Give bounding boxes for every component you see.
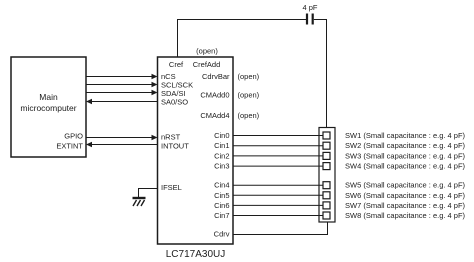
wire IFSEL to ground (139, 189, 158, 198)
wire Cin5 (233, 194, 323, 196)
wire Cin7 (233, 215, 323, 217)
svg-text:SW2 (Small capacitance : e.g.: SW2 (Small capacitance : e.g. 4 pF) (345, 141, 466, 150)
svg-text:(open): (open) (238, 91, 260, 100)
switch SW3 pad (323, 152, 330, 159)
svg-text:Cin7: Cin7 (214, 211, 229, 220)
switch SW7 pad (323, 202, 330, 209)
svg-text:CrefAdd: CrefAdd (193, 60, 221, 69)
svg-text:Cin2: Cin2 (214, 151, 229, 160)
svg-text:SW8 (Small capacitance : e.g.: SW8 (Small capacitance : e.g. 4 pF) (345, 211, 466, 220)
svg-text:SW3 (Small capacitance : e.g.: SW3 (Small capacitance : e.g. 4 pF) (345, 151, 466, 160)
wire capacitor to switch block top (314, 20, 327, 128)
svg-text:Cin1: Cin1 (214, 141, 229, 150)
svg-text:Main: Main (39, 92, 58, 102)
wire Cdrv to switch block bottom (233, 222, 328, 235)
wire INTOUT (91, 144, 158, 146)
svg-text:Cref: Cref (169, 60, 184, 69)
switch SW1 pad (323, 132, 330, 139)
wire Cin1 (233, 145, 323, 147)
capacitor C1 (307, 14, 313, 25)
svg-text:Cin4: Cin4 (214, 181, 229, 190)
switch module outline (319, 128, 335, 223)
wire SCL/SCK (86, 84, 153, 86)
wire Cin2 (233, 155, 323, 157)
svg-text:Cin6: Cin6 (214, 201, 229, 210)
svg-text:CMAdd4: CMAdd4 (200, 111, 229, 120)
svg-text:nRST: nRST (161, 133, 181, 142)
op-amp U1 LC717A30UJ body (158, 57, 234, 244)
svg-text:SW6 (Small capacitance : e.g.: SW6 (Small capacitance : e.g. 4 pF) (345, 191, 466, 200)
main microcomputer box (11, 57, 86, 157)
wire Cin6 (233, 204, 323, 206)
svg-text:SW4 (Small capacitance : e.g.: SW4 (Small capacitance : e.g. 4 pF) (345, 162, 466, 171)
switch SW2 pad (323, 142, 330, 149)
svg-text:SW7 (Small capacitance : e.g.: SW7 (Small capacitance : e.g. 4 pF) (345, 201, 466, 210)
wire SDA/SI (86, 92, 153, 94)
svg-text:CMAdd0: CMAdd0 (200, 91, 229, 100)
switch SW8 pad (323, 212, 330, 219)
svg-text:SW5 (Small capacitance : e.g.: SW5 (Small capacitance : e.g. 4 pF) (345, 181, 466, 190)
wire SA0/SO (91, 101, 158, 103)
svg-text:4 pF: 4 pF (302, 3, 317, 12)
switch SW6 pad (323, 192, 330, 199)
wire nRST (86, 137, 153, 139)
wire Cin3 (233, 165, 323, 167)
svg-text:Cin5: Cin5 (214, 191, 229, 200)
switch SW5 pad (323, 182, 330, 189)
wire Cref pin up and right to capacitor (178, 20, 307, 58)
svg-text:LC717A30UJ: LC717A30UJ (166, 249, 225, 260)
wire Cin0 (233, 135, 323, 137)
switch SW4 pad (323, 163, 330, 170)
svg-text:(open): (open) (238, 111, 260, 120)
svg-text:INTOUT: INTOUT (161, 142, 189, 151)
svg-text:CdrvBar: CdrvBar (202, 72, 230, 81)
ground (133, 198, 146, 206)
wire nCS (86, 76, 153, 78)
svg-text:Cin3: Cin3 (214, 162, 229, 171)
svg-text:Cdrv: Cdrv (214, 230, 230, 239)
svg-text:(open): (open) (196, 47, 218, 56)
svg-text:GPIO: GPIO (64, 132, 83, 141)
svg-text:EXTINT: EXTINT (56, 142, 83, 151)
svg-text:SW1 (Small capacitance : e.g.: SW1 (Small capacitance : e.g. 4 pF) (345, 131, 466, 140)
svg-text:Cin0: Cin0 (214, 131, 229, 140)
svg-text:microcomputer: microcomputer (20, 103, 76, 113)
svg-text:IFSEL: IFSEL (161, 183, 182, 192)
svg-text:(open): (open) (238, 72, 260, 81)
svg-text:SA0/SO: SA0/SO (161, 98, 188, 107)
wire Cin4 (233, 184, 323, 186)
